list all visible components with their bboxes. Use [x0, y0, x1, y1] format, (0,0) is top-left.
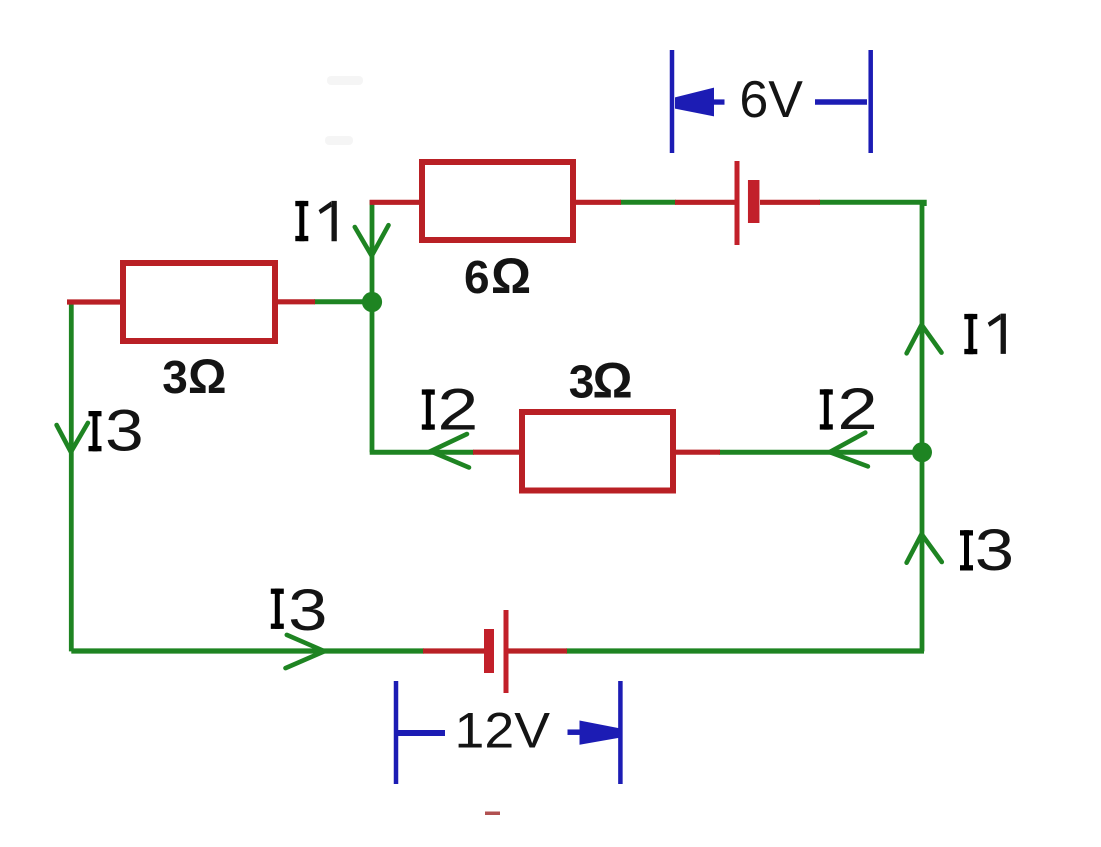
- wire: red segment into 6V battery left plate: [675, 200, 735, 205]
- voltage marker 12V right tick: [618, 681, 623, 784]
- label I3 right: digit 3: [975, 517, 1014, 582]
- voltage marker 12V left tick: [394, 681, 399, 784]
- wire: middle green I2 right segment: [719, 450, 921, 455]
- label I1 right: I glyph: [964, 314, 977, 354]
- battery B1 6V short plate: [748, 180, 760, 223]
- voltage marker 6V arrow stub: [714, 99, 725, 104]
- arrow I3 down on left wire: [57, 423, 88, 452]
- arrow I3 up on right wire: [907, 534, 942, 563]
- svg-text:6: 6: [464, 251, 490, 303]
- resistor 6ohm top: [422, 162, 573, 240]
- svg-text:3: 3: [288, 577, 327, 642]
- arrow I1 down on middle wire: [355, 225, 389, 256]
- svg-text:12V: 12V: [455, 703, 551, 759]
- node A junction dot: [362, 292, 382, 312]
- voltage marker 12V arrowhead right: [580, 721, 620, 745]
- svg-text:3: 3: [105, 398, 144, 463]
- wire: top green segment between 6ohm resistor and 6V battery: [620, 200, 676, 205]
- resistor 3ohm left: [123, 263, 275, 341]
- label I1 top: digit 1: [319, 201, 337, 241]
- label I2 left: digit 2: [437, 378, 478, 443]
- wire: red segment node A corner to 6ohm resistor: [370, 200, 421, 205]
- svg-text:3: 3: [569, 356, 595, 408]
- wire: red segment right of 6ohm resistor: [574, 200, 621, 205]
- wire: top right green segment battery to corner: [819, 202, 924, 206]
- artifact red dash bottom: [485, 812, 500, 816]
- svg-text:3: 3: [162, 351, 188, 403]
- artifact smudge 2: [325, 136, 353, 145]
- wire: red segment bottom 12V battery to green: [507, 648, 567, 653]
- voltage marker 6V left tick: [670, 50, 675, 153]
- svg-text:Ω: Ω: [592, 353, 632, 409]
- svg-text:6V: 6V: [739, 71, 803, 129]
- label I3 top left: digit 3: [105, 398, 144, 463]
- svg-text:2: 2: [437, 378, 478, 443]
- label I3 top left: I glyph: [89, 411, 102, 451]
- wire: middle vertical green (node A to node B): [370, 200, 375, 452]
- wire: bottom green right segment: [566, 648, 924, 653]
- wire: right vertical green: [920, 202, 925, 651]
- label I1 right: digit 1: [988, 314, 1006, 354]
- label I3 right: I glyph: [960, 530, 973, 570]
- arrow I1 up on right wire: [907, 325, 942, 354]
- artifact smudge 1: [327, 76, 363, 85]
- label I1 top: I glyph: [295, 201, 308, 241]
- arrow I2 left (east side): [830, 433, 868, 467]
- label I2 right: digit 2: [837, 377, 877, 441]
- resistor 3ohm middle: [522, 412, 673, 491]
- voltage marker 6V arrowhead left: [675, 88, 714, 117]
- arrow I2 left (west side): [431, 434, 470, 468]
- wire: bottom green left segment: [71, 648, 424, 653]
- voltage marker 6V right tick: [868, 50, 873, 153]
- voltage marker 12V arrow stub: [568, 729, 583, 735]
- svg-text:2: 2: [837, 377, 877, 441]
- battery B2 12V short plate: [484, 629, 494, 673]
- battery B2 12V long plate: [504, 610, 509, 693]
- svg-text:Ω: Ω: [188, 351, 226, 404]
- node B junction dot: [912, 442, 932, 462]
- wire: middle green I2 left segment: [370, 450, 474, 455]
- label I2 right: I glyph: [820, 389, 833, 429]
- svg-text:3: 3: [975, 517, 1014, 582]
- wire: red segment corner to 3ohm left resistor: [67, 299, 122, 304]
- voltage marker 6V right line: [815, 99, 867, 105]
- label I3 bottom: digit 3: [288, 577, 327, 642]
- label I2 left: I glyph: [422, 389, 435, 429]
- wire: red segment right of middle resistor: [674, 450, 720, 455]
- battery B1 6V long plate: [735, 161, 740, 245]
- voltage marker 12V left stub: [395, 730, 445, 736]
- wire: red segment right of left resistor: [276, 299, 315, 304]
- svg-text:Ω: Ω: [491, 248, 531, 304]
- label I3 bottom: I glyph: [271, 589, 284, 629]
- wire: red segment bottom into 12V battery: [423, 648, 485, 653]
- arrow I3 right on bottom wire: [286, 635, 325, 668]
- wire: red segment 6V battery right to green: [760, 200, 820, 205]
- wire: left vertical green I3 branch: [69, 302, 74, 651]
- wire: red segment left of middle resistor: [473, 450, 521, 455]
- wire: green segment left resistor to node A: [314, 299, 372, 304]
